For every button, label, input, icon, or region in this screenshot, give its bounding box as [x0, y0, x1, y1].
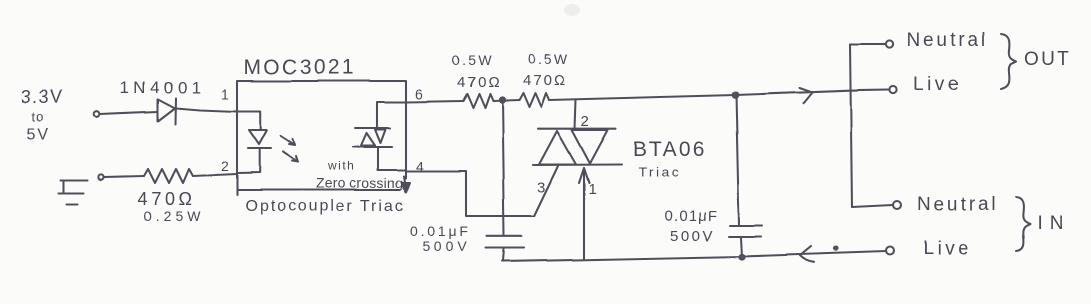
svg-text:1: 1 [588, 181, 596, 198]
wire triac bottom to pin 4 [378, 147, 406, 170]
op-amp U1 MOC3021 box [237, 81, 406, 195]
triac Q1 BTA06 [533, 129, 622, 165]
svg-text:500V: 500V [670, 228, 715, 245]
svg-text:0.01μF: 0.01μF [410, 223, 471, 239]
svg-text:0.5W: 0.5W [452, 52, 494, 68]
triac U1b detector inside MOC3021 [353, 128, 392, 147]
svg-text:IN: IN [1037, 213, 1070, 234]
svg-text:Live: Live [913, 74, 962, 95]
svg-text:2: 2 [221, 158, 229, 174]
svg-text:Triac: Triac [638, 164, 681, 180]
svg-text:Live: Live [923, 238, 972, 259]
smudge [564, 4, 580, 16]
wire GND terminal to resistor R1 [104, 176, 144, 177]
diode D1 1N4001 [158, 98, 176, 124]
svg-text:0.25W: 0.25W [144, 208, 204, 224]
wire R3 to node C [549, 95, 735, 100]
svg-text:OUT: OUT [1024, 49, 1071, 70]
svg-text:6: 6 [415, 86, 423, 102]
svg-text:4: 4 [416, 158, 424, 174]
wire R1 to pin 2 [193, 174, 237, 176]
wire node B down to capacitor C1 [502, 100, 504, 235]
svg-text:MOC3021: MOC3021 [244, 56, 356, 79]
light arrow 2 [283, 152, 298, 162]
arrow on live in wire [800, 247, 814, 263]
svg-text:470Ω: 470Ω [138, 189, 196, 209]
arrow at box corner [402, 176, 411, 193]
node Neutral OUT terminal [886, 40, 893, 47]
svg-text:Zero crossing: Zero crossing [316, 175, 403, 191]
wire neutral out branch [850, 43, 886, 45]
svg-text:Neutral: Neutral [907, 30, 988, 51]
brace IN [1016, 197, 1030, 251]
wire R2 to junction [493, 100, 519, 101]
svg-text:2: 2 [581, 113, 589, 130]
wire neutral in branch [852, 205, 893, 207]
wire triac top to pin 6 [377, 102, 406, 128]
node VIN input terminal [94, 111, 100, 117]
svg-text:1: 1 [221, 86, 229, 102]
svg-text:1N4001: 1N4001 [120, 78, 205, 97]
wire triac pin 2 [575, 100, 576, 129]
svg-text:Neutral: Neutral [917, 194, 998, 215]
resistor R1 470ohm 0.25W [144, 169, 193, 183]
svg-text:470Ω: 470Ω [457, 74, 501, 91]
wire diode to pin 1 [176, 108, 237, 112]
LED D2 inside MOC3021 [248, 130, 271, 149]
wire gate pin 3 [534, 166, 558, 216]
wire C2 to bottom net junction [741, 238, 742, 258]
wire right bus vertical [850, 44, 852, 207]
wire pin 1 inside to LED [237, 112, 261, 131]
svg-text:0.01μF: 0.01μF [664, 208, 718, 225]
junction dot node B [499, 97, 504, 102]
svg-text:with: with [327, 159, 355, 173]
wire pin 4 net [406, 171, 534, 216]
wire triac pin 1 to bottom net with up arrow [579, 168, 589, 259]
capacitor C1 0.01uF 500V [486, 236, 524, 248]
svg-text:470Ω: 470Ω [523, 72, 567, 89]
ground [58, 180, 87, 204]
svg-text:0.5W: 0.5W [528, 51, 570, 67]
arrow on live out wire [799, 88, 812, 104]
junction dot node C [732, 92, 738, 98]
brace OUT [1001, 34, 1016, 89]
wire LED cathode to pin 2 [237, 149, 260, 174]
node GND input terminal [98, 174, 103, 179]
svg-text:5V: 5V [27, 126, 51, 143]
junction dot bottom net [739, 254, 744, 259]
node Live IN terminal [886, 247, 894, 255]
node Live OUT terminal [889, 86, 896, 93]
wire C1 to bottom net [503, 249, 504, 261]
resistor R3 470ohm 0.5W [519, 93, 549, 107]
svg-text:3: 3 [537, 179, 545, 196]
wire node C down to capacitor C2 [736, 95, 739, 224]
resistor R2 470ohm 0.5W [463, 94, 493, 108]
light arrow 1 [281, 136, 295, 145]
capacitor C2 0.01uF 500V [729, 226, 762, 237]
wire node C to right bus [735, 90, 888, 95]
svg-text:BTA06: BTA06 [633, 138, 707, 161]
svg-text:Optocoupler Triac: Optocoupler Triac [245, 198, 405, 215]
wire VIN to diode [100, 112, 158, 115]
dot on live in wire [834, 247, 837, 250]
svg-text:to: to [32, 109, 45, 124]
wire pin 6 to resistor R2 [406, 101, 463, 102]
node Neutral IN terminal [893, 201, 901, 209]
wire bottom net [502, 252, 886, 262]
svg-text:500V: 500V [422, 238, 471, 254]
svg-text:3.3V: 3.3V [21, 87, 64, 107]
